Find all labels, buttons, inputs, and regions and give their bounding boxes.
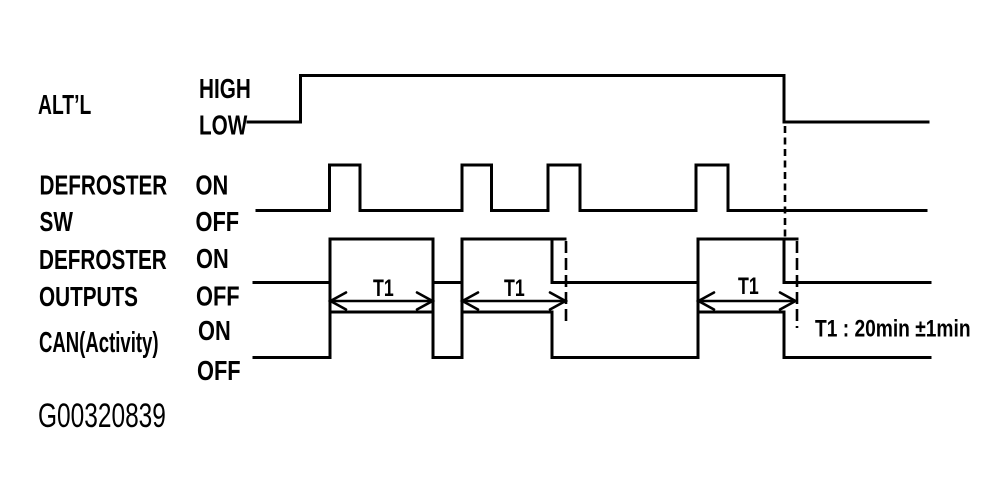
svg-text:ALT’L: ALT’L xyxy=(38,90,91,121)
svg-text:OFF: OFF xyxy=(197,355,241,386)
svg-text:ON: ON xyxy=(198,315,231,346)
svg-text:OFF: OFF xyxy=(196,281,240,312)
svg-text:T1 : 20min ±1min: T1 : 20min ±1min xyxy=(815,314,971,342)
svg-text:LOW: LOW xyxy=(199,111,248,142)
svg-text:OUTPUTS: OUTPUTS xyxy=(39,282,138,313)
svg-text:ON: ON xyxy=(196,170,229,201)
svg-text:CAN(Activity): CAN(Activity) xyxy=(39,327,159,359)
svg-text:HIGH: HIGH xyxy=(199,74,251,105)
svg-text:T1: T1 xyxy=(738,274,759,300)
svg-text:T1: T1 xyxy=(373,276,394,302)
svg-text:T1: T1 xyxy=(504,276,525,302)
svg-text:G00320839: G00320839 xyxy=(38,397,166,435)
svg-text:DEFROSTER: DEFROSTER xyxy=(39,245,167,276)
svg-text:OFF: OFF xyxy=(196,206,240,237)
svg-text:DEFROSTER: DEFROSTER xyxy=(40,171,168,202)
svg-text:ON: ON xyxy=(196,243,229,274)
svg-text:SW: SW xyxy=(40,207,74,238)
